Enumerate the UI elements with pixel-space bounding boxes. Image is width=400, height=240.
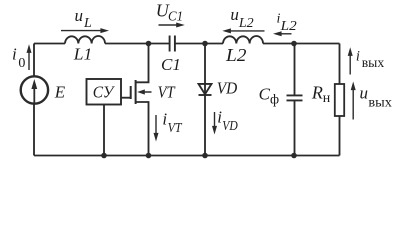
svg-text:L2: L2 — [225, 45, 247, 65]
capacitor Cf — [287, 95, 303, 100]
svg-text:VD: VD — [222, 119, 238, 134]
inductor L1 — [65, 36, 105, 44]
node: junction L2 right / Cf — [291, 41, 297, 47]
arrow i_out — [348, 47, 353, 74]
diode VD triangle — [199, 84, 212, 94]
wire right vertical lower — [339, 116, 341, 156]
node: junction VT drain / C1 — [146, 41, 152, 47]
transistor VT arrow — [137, 89, 151, 94]
svg-text:i: i — [356, 48, 360, 64]
node: junction VD / L2 left — [202, 41, 208, 47]
wire L1 to C1 — [105, 43, 170, 45]
svg-text:L2: L2 — [280, 19, 297, 34]
diode VD cathode bar — [199, 94, 212, 96]
svg-text:VT: VT — [168, 121, 183, 136]
wire left vertical below source — [33, 104, 35, 156]
capacitor C1 — [170, 36, 175, 52]
wire C1 to L2 — [175, 43, 223, 45]
wire control unit to bottom — [103, 105, 105, 156]
node: junction VD bottom — [202, 153, 208, 159]
wire top left horizontal — [34, 43, 65, 45]
svg-text:L2: L2 — [238, 16, 254, 31]
wire Cf upper — [294, 44, 296, 96]
svg-text:н: н — [323, 91, 331, 106]
transistor VT gate wire from control unit — [121, 97, 131, 99]
transistor VT gate bar — [130, 86, 132, 99]
svg-text:СУ: СУ — [93, 83, 116, 102]
wire L2 to top-right corner — [263, 43, 340, 45]
svg-text:u: u — [75, 6, 84, 25]
resistor Rn — [335, 84, 344, 116]
wire left vertical above source — [33, 44, 35, 77]
arrow uL2 — [222, 28, 264, 33]
source E arrow shaft — [33, 87, 35, 104]
control unit box — [87, 79, 122, 105]
svg-text:VT: VT — [158, 83, 176, 102]
node: junction control unit bottom — [101, 153, 107, 159]
svg-text:ф: ф — [270, 92, 279, 107]
arrow i0 — [27, 44, 32, 70]
svg-text:R: R — [311, 82, 323, 102]
wire bottom horizontal — [34, 155, 340, 157]
arrow iL2 — [273, 31, 292, 36]
transistor VT channel bar — [135, 80, 137, 104]
inductor L2 — [223, 36, 263, 44]
wire VT drain from top junction — [136, 44, 149, 83]
arrow u_out — [351, 82, 356, 120]
svg-text:E: E — [54, 83, 66, 102]
svg-text:L1: L1 — [73, 44, 93, 63]
svg-text:u: u — [360, 84, 369, 103]
svg-text:VD: VD — [217, 78, 238, 97]
wire VT source to bottom — [136, 102, 149, 156]
arrow iVT — [154, 115, 159, 142]
svg-text:C1: C1 — [161, 55, 181, 74]
node: junction Cf bottom — [291, 153, 297, 159]
diode VD wire — [204, 44, 206, 156]
svg-text:вых: вых — [362, 56, 385, 71]
arrow iVD — [212, 112, 217, 135]
svg-text:i: i — [12, 44, 17, 63]
svg-text:вых: вых — [368, 96, 392, 111]
arrow UC1 — [159, 23, 185, 28]
svg-text:C: C — [259, 84, 271, 103]
wire right vertical upper — [339, 44, 341, 85]
svg-text:C1: C1 — [168, 10, 183, 25]
node: junction VT source bottom — [146, 153, 152, 159]
arrow uL — [61, 28, 109, 33]
source E circle — [21, 76, 48, 103]
source E arrowhead — [31, 79, 37, 89]
svg-text:u: u — [230, 5, 239, 24]
svg-text:0: 0 — [18, 56, 25, 71]
svg-text:L: L — [83, 16, 92, 31]
wire Cf lower — [294, 100, 296, 155]
